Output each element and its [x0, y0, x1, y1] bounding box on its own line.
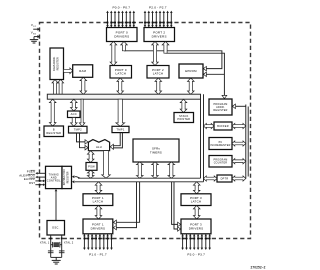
internal data bus bar: [47, 94, 200, 99]
svg-text:TMP1: TMP1: [116, 127, 124, 131]
arrows into instruction register: [75, 177, 80, 179]
pin line x=186.5: [186, 234, 188, 248]
pin line x=84.4: [83, 234, 85, 248]
pin line x=156.3: [155, 13, 157, 28]
wire VSS to ground: [33, 37, 35, 40]
pin line x=103.8: [103, 234, 105, 248]
PSW: [86, 163, 97, 171]
pin line x=88.3: [87, 234, 89, 248]
svg-text:DRIVERS: DRIVERS: [189, 226, 204, 230]
EPROM to bus arrow: [188, 78, 195, 94]
stack pointer: [174, 113, 194, 123]
svg-text:DRIVERS: DRIVERS: [152, 35, 167, 39]
pin line x=171.3: [170, 13, 172, 28]
ACC to TMP2 arrow: [71, 118, 78, 127]
svg-text:DPTR: DPTR: [221, 177, 229, 180]
port 1 drivers input wires: [116, 182, 139, 223]
svg-text:270252–2: 270252–2: [251, 265, 266, 269]
buffer left arrow: [204, 123, 215, 128]
ALU: [88, 140, 109, 151]
timing and control: [46, 166, 63, 188]
svg-text:DRIVERS: DRIVERS: [91, 226, 106, 230]
PSW to data wire arrow: [87, 170, 94, 178]
DPTR right arrow: [232, 176, 246, 181]
svg-text:POINTER: POINTER: [177, 118, 190, 121]
svg-text:TIMERS: TIMERS: [150, 150, 162, 154]
port 1 drivers: [83, 219, 113, 234]
pin line x=99.9: [99, 234, 101, 248]
svg-text:EPROM: EPROM: [185, 69, 197, 73]
SFR block to data wire arrows: [137, 162, 144, 178]
buffer: [214, 122, 232, 130]
ALU to PSW arrow: [87, 151, 94, 163]
pin line x=194.2: [193, 234, 195, 248]
port 0 latch to bus arrow: [117, 78, 124, 94]
pin line x=167.6: [167, 13, 169, 28]
svg-text:P2.0 - P2.7: P2.0 - P2.7: [149, 5, 167, 9]
program counter right arrow: [232, 159, 246, 164]
TMP1 to ALU wire: [113, 133, 120, 146]
ACC: [68, 111, 81, 118]
pin line x=107.6: [107, 234, 109, 248]
pin line x=205.8: [205, 234, 207, 248]
bus to TMP2 arrow: [79, 99, 85, 126]
svg-text:INCREMENTER: INCREMENTER: [210, 144, 230, 147]
svg-text:DRIVERS: DRIVERS: [114, 35, 129, 39]
port 0 drivers: [107, 28, 138, 42]
svg-text:LATCH: LATCH: [153, 72, 164, 76]
pin line x=152.5: [152, 13, 154, 28]
EPROM: [179, 64, 203, 78]
pin line x=182.6: [182, 234, 184, 248]
svg-text:XTAL 1: XTAL 1: [40, 241, 50, 245]
ground wire join: [51, 256, 62, 258]
oscillator: [47, 221, 65, 236]
RAM: [73, 65, 93, 78]
RAM addr register to bus arrows: [52, 80, 58, 95]
SFRs and timers block: [133, 139, 179, 162]
chip package dashed border: [40, 23, 251, 239]
pin line x=133.8: [133, 13, 135, 28]
ground symbol (XTAL): [52, 259, 61, 261]
port 3 latch to wire arrow: [193, 182, 200, 194]
pin line x=122.5: [122, 13, 124, 28]
B register: [44, 126, 64, 137]
svg-text:REGISTER: REGISTER: [67, 171, 69, 183]
RAM addr register to RAM arrow: [64, 68, 73, 74]
pin line x=190.3: [189, 234, 191, 248]
pin line x=198.1: [197, 234, 199, 248]
program counter: [209, 156, 232, 168]
svg-text:OSC.: OSC.: [52, 226, 60, 230]
ACC to bus arrow: [71, 99, 78, 111]
pin line x=145.0: [144, 13, 146, 28]
svg-text:RAM ADDR.: RAM ADDR.: [52, 56, 56, 71]
stack pointer to bus arrow: [180, 99, 187, 112]
svg-text:REGISTER: REGISTER: [213, 109, 227, 112]
bus to TMP1 arrow: [116, 99, 125, 126]
pin line x=201.9: [201, 234, 203, 248]
RAM to bus arrow: [80, 77, 87, 94]
right program bus verticals: [245, 105, 247, 179]
B register to bus arrow: [49, 99, 56, 126]
svg-text:TMP2: TMP2: [74, 128, 82, 132]
bus right end verticals: [203, 94, 205, 182]
OSC to timing wire: [55, 191, 57, 221]
ground symbol (VSS): [30, 39, 38, 41]
port 0 data arrow drivers-latch: [110, 42, 117, 66]
svg-text:LATCH: LATCH: [116, 72, 127, 76]
svg-text:ACC: ACC: [71, 112, 77, 116]
XTAL2 wire: [61, 235, 63, 257]
svg-text:ALU: ALU: [96, 145, 102, 149]
arrow into EPROM right upper: [203, 66, 206, 70]
port 3 drivers: [181, 219, 211, 234]
crystal: [51, 244, 53, 246]
port 3 drivers input wires: [172, 182, 178, 225]
pin line x=96.0: [95, 234, 97, 248]
capacitor C2: [59, 250, 65, 252]
arrow into program address register top: [222, 95, 227, 98]
arrow into PAR right: [236, 105, 246, 107]
pin line x=148.8: [148, 13, 150, 28]
port 1 latch to wire arrow: [95, 182, 102, 194]
pin line x=163.8: [163, 13, 165, 28]
TMP1: [112, 126, 129, 132]
pin line x=209.7: [209, 234, 211, 248]
buffer right arrow: [232, 123, 246, 128]
capacitor C1: [48, 250, 54, 252]
port 3 latch: [181, 194, 211, 206]
port 2 address arrow: [162, 42, 169, 54]
ALU output arrow to data wire: [102, 151, 111, 179]
pin line x=126.3: [125, 13, 127, 28]
pin line x=111.3: [110, 13, 112, 28]
svg-text:PSW: PSW: [88, 164, 95, 168]
svg-text:COUNTER: COUNTER: [214, 162, 228, 165]
svg-text:LATCH: LATCH: [191, 200, 202, 204]
svg-text:P0.0 - P0.7: P0.0 - P0.7: [112, 5, 130, 9]
svg-text:REGISTER: REGISTER: [46, 132, 61, 135]
svg-text:RST: RST: [29, 181, 35, 185]
address line lower (to EPROM and PAR): [166, 53, 225, 96]
svg-text:RAM: RAM: [79, 69, 86, 73]
pin line x=115.0: [114, 13, 116, 28]
pin line x=111.5: [111, 234, 113, 248]
pin line x=92.1: [91, 234, 93, 248]
port 0 address arrow: [121, 42, 128, 51]
instruction register: [62, 166, 72, 188]
TMP2 to ALU wires: [77, 133, 86, 142]
program address register: [209, 99, 232, 115]
pin line x=130.1: [129, 13, 131, 28]
svg-text:P3.0 - P3.7: P3.0 - P3.7: [187, 253, 205, 257]
port 1 latch-drivers arrow: [95, 206, 102, 220]
XTAL1 wire: [50, 235, 52, 257]
port 1 latch: [83, 194, 113, 206]
pin line x=160.0: [159, 13, 161, 28]
lower data wire pair to instruction register: [78, 177, 201, 179]
port 2 latch: [147, 66, 169, 79]
pin line x=118.8: [118, 13, 120, 28]
port 0 latch: [110, 66, 132, 79]
PC incrementer: [209, 138, 232, 150]
port 2 drivers: [144, 28, 175, 42]
svg-text:BUFFER: BUFFER: [217, 125, 229, 128]
RAM address register: [50, 48, 64, 80]
port 2 latch to bus arrow: [155, 78, 162, 94]
svg-text:XTAL 2: XTAL 2: [64, 241, 74, 245]
TMP2: [69, 126, 88, 133]
pin line x=107.5: [107, 13, 109, 28]
svg-text:REGISTER: REGISTER: [56, 57, 60, 70]
svg-text:INSTRUCTION: INSTRUCTION: [64, 169, 66, 185]
svg-text:LATCH: LATCH: [93, 200, 104, 204]
port 2 data arrow drivers-latch: [152, 42, 159, 66]
arrow into EPROM right lower: [203, 72, 206, 76]
port 3 latch-drivers arrow: [193, 206, 200, 220]
svg-text:CONTROL: CONTROL: [47, 179, 61, 182]
DPTR: [217, 175, 232, 182]
address line upper (to EPROM): [124, 51, 222, 69]
DPTR left arrow: [204, 176, 218, 181]
PC incrementer right arrow: [232, 141, 246, 146]
svg-text:P1.0 - P1.7: P1.0 - P1.7: [89, 253, 107, 257]
